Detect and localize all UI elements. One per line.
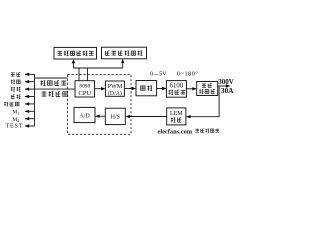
block: optocoupler 光耦 bbox=[136, 81, 157, 96]
svg-text:PWM: PWM bbox=[108, 83, 123, 90]
block: PWM (D/A) bbox=[105, 81, 124, 97]
svg-text:300V: 300V bbox=[218, 78, 234, 86]
wire: keyboard upper line bbox=[35, 77, 68, 79]
svg-text:6100: 6100 bbox=[170, 82, 184, 89]
input arrow row 7 M2 bbox=[25, 118, 35, 120]
wire: CPU to PWM arrow bbox=[95, 88, 104, 90]
block: alarm/display/print 报警显示打印 bbox=[54, 47, 97, 59]
wire: H/S to A/D arrow bbox=[97, 115, 105, 117]
input arrow row 5 软起停 bbox=[25, 103, 35, 105]
wire: arrow up to alarm box bbox=[72, 61, 74, 68]
wire: bridge output arrow bbox=[218, 85, 229, 87]
keyboard scan / mode select text 键盘扫描 方式选择 bbox=[40, 80, 67, 96]
wire: optocoupler to 6100 arrow bbox=[157, 88, 165, 90]
block: A/D converter bbox=[74, 107, 95, 122]
svg-text:elecfans.com: elecfans.com bbox=[158, 128, 193, 135]
block: LEM current sensor LEM测流 bbox=[167, 108, 186, 125]
svg-text:0—5V: 0—5V bbox=[150, 72, 167, 78]
svg-text:A/D: A/D bbox=[79, 113, 90, 119]
wire: CPU interrupt bus horizontal bbox=[73, 67, 122, 69]
svg-text:TEST: TEST bbox=[5, 123, 23, 129]
input arrow row 8 TEST bbox=[25, 125, 35, 127]
block: over-voltage over-current protection 过压过流保护 bbox=[102, 47, 147, 59]
watermark: 电子发烧友 bbox=[195, 129, 219, 133]
block: 6100 trigger board 6100触发板 bbox=[166, 81, 186, 98]
svg-text:1: 1 bbox=[17, 112, 19, 116]
block: three-phase full-controlled bridge 三相全控桥 bbox=[197, 82, 218, 96]
input arrow row 2 稳压 bbox=[25, 81, 35, 83]
wire: PWM to optocoupler arrow bbox=[124, 88, 134, 90]
wire: CPU top stub left bbox=[78, 68, 80, 81]
block: 8098 CPU bbox=[75, 81, 95, 97]
svg-text:30A: 30A bbox=[221, 87, 234, 95]
svg-text:CPU: CPU bbox=[78, 90, 91, 97]
wire: left input bus vertical bbox=[34, 74, 36, 126]
input arrow row 3 稳流 bbox=[25, 88, 35, 90]
block: H/S sample-hold bbox=[105, 108, 125, 124]
input arrow row 1 手动 bbox=[25, 73, 35, 75]
svg-text:0~180°: 0~180° bbox=[177, 71, 198, 78]
svg-text:8098: 8098 bbox=[79, 84, 90, 90]
input arrow row 4 转换 bbox=[25, 96, 35, 98]
svg-text:H/S: H/S bbox=[111, 115, 120, 121]
wire: keyboard lower line into CPU bbox=[35, 88, 76, 90]
svg-text:(D/A): (D/A) bbox=[108, 90, 122, 97]
wire: CPU top stub right bbox=[87, 68, 89, 81]
wire: 6100 to bridge arrow bbox=[186, 88, 195, 90]
wire: arrow up to protection box bbox=[122, 61, 124, 68]
svg-text:LEM: LEM bbox=[170, 111, 183, 117]
wire: LEM to H/S arrow bbox=[127, 116, 166, 118]
input arrow row 6 M1 bbox=[25, 110, 35, 112]
dashed microcontroller boundary box bbox=[68, 75, 132, 135]
wire: output feedback down and into LEM bbox=[188, 86, 219, 117]
